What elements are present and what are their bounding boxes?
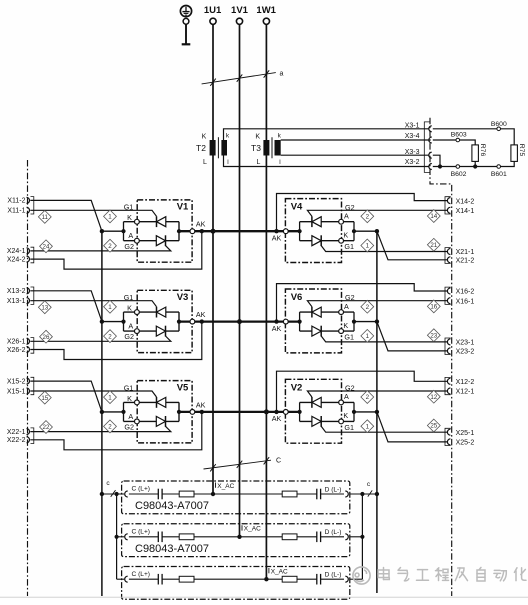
svg-text:V1: V1	[177, 202, 189, 213]
connector X23 bracket	[445, 338, 451, 355]
cable number 2 (V3 G2)	[104, 330, 117, 343]
test point B603	[451, 131, 467, 141]
svg-text:2: 2	[108, 333, 112, 340]
svg-text:A: A	[344, 302, 349, 311]
svg-text:a: a	[280, 71, 284, 78]
svg-text:X3-3: X3-3	[405, 149, 420, 156]
connector X21 bracket	[445, 248, 451, 264]
svg-text:AK: AK	[272, 234, 282, 243]
svg-text:B603: B603	[451, 131, 467, 138]
terminal X14-1	[447, 207, 474, 215]
svg-text:24: 24	[43, 244, 50, 251]
cable number 22	[40, 421, 53, 434]
svg-text:1V1: 1V1	[231, 5, 249, 16]
svg-text:C (L+): C (L+)	[132, 528, 151, 535]
junction phase row 3	[264, 409, 269, 414]
svg-text:A: A	[128, 412, 133, 421]
wire DC bus to strip1 C	[102, 493, 124, 495]
wire X11-2 to cathode node	[30, 200, 102, 231]
svg-text:16: 16	[430, 304, 437, 311]
wire AK phase row V1/V4	[179, 230, 300, 232]
wire AK phase row V3/V6	[179, 320, 300, 322]
node X_AC strip 2	[237, 525, 261, 539]
junction DC bus left row 1	[100, 229, 104, 233]
svg-text:V3: V3	[177, 292, 189, 303]
svg-text:D (L-): D (L-)	[325, 572, 342, 579]
svg-text:G1: G1	[124, 203, 134, 212]
svg-text:A: A	[128, 231, 133, 240]
terminal X15-2	[7, 378, 30, 385]
svg-text:X13-1: X13-1	[7, 298, 26, 305]
svg-text:K: K	[343, 411, 348, 420]
svg-text:C: C	[276, 458, 281, 465]
cable number 13	[38, 301, 51, 314]
svg-text:A: A	[344, 392, 349, 401]
svg-text:2: 2	[108, 424, 112, 431]
svg-text:AK: AK	[196, 220, 206, 229]
svg-text:V2: V2	[291, 382, 303, 393]
svg-text:L: L	[203, 159, 207, 166]
watermark text	[378, 567, 526, 581]
terminal X21-2	[447, 257, 474, 265]
current transformer T2	[196, 132, 230, 166]
strip interconnect vertical left	[116, 494, 118, 579]
svg-text:K: K	[127, 394, 132, 403]
junction DC bus right row 1	[375, 229, 379, 233]
thyristor module V3	[121, 290, 205, 352]
junction riser X16-2	[274, 319, 278, 323]
svg-text:X_AC: X_AC	[217, 483, 234, 490]
svg-text:X22-1: X22-1	[7, 429, 26, 436]
wire strip1 D to DC bus	[350, 493, 377, 495]
svg-text:G1: G1	[124, 293, 134, 302]
svg-text:1U1: 1U1	[204, 5, 222, 16]
cable marker c right	[367, 481, 372, 496]
enclosure boundary left	[27, 160, 29, 596]
svg-text:G1: G1	[344, 423, 354, 432]
svg-text:2: 2	[366, 214, 370, 221]
svg-text:B602: B602	[451, 171, 467, 178]
cable number 14	[427, 210, 440, 223]
svg-text:V5: V5	[177, 382, 189, 393]
junction riser X24-2	[200, 229, 204, 233]
wire T2 k to X3-1	[224, 129, 429, 140]
svg-text:X23-1: X23-1	[456, 340, 475, 347]
wire strip2 D	[350, 536, 362, 538]
resistor R75	[511, 144, 525, 162]
svg-text:X13-2: X13-2	[7, 288, 26, 295]
test point B600	[491, 121, 507, 131]
wire V4 right lead to DC bus	[354, 230, 377, 232]
svg-text:2: 2	[108, 243, 112, 250]
svg-text:X3-4: X3-4	[405, 133, 420, 140]
wire V5 left lead to DC bus	[102, 411, 124, 413]
svg-text:13: 13	[41, 305, 48, 312]
thyristor module V4	[272, 199, 356, 263]
thyristor module V1	[121, 200, 205, 262]
current transformer T3	[251, 132, 282, 166]
enclosure boundary right	[430, 118, 452, 596]
wire V3 left lead to DC bus	[102, 321, 124, 323]
phase terminal 1V1	[231, 5, 249, 24]
wire X3-3 drop to bottom net	[433, 155, 440, 166]
svg-text:G1: G1	[124, 383, 134, 392]
svg-text:K: K	[202, 133, 207, 140]
cable number 1 (V3 G1)	[104, 300, 117, 313]
svg-text:X12-2: X12-2	[456, 379, 475, 386]
junction strip1 right2	[360, 492, 364, 496]
phase terminal 1U1	[204, 5, 222, 24]
svg-text:R75: R75	[518, 144, 525, 157]
wire V2 right lead to DC bus	[354, 411, 377, 413]
cable marker a	[202, 70, 284, 86]
cable number 1 (V6 G1)	[361, 330, 374, 343]
svg-text:T3: T3	[251, 143, 261, 153]
svg-text:R76: R76	[479, 144, 486, 157]
junction DC bus right row 3	[375, 410, 379, 414]
cable number 2 (V2 G2)	[361, 391, 374, 404]
wire T3 k to X3-4	[281, 139, 429, 141]
cable number 1 (V5 G1)	[104, 391, 117, 404]
wire T2 l to X3-2	[224, 156, 429, 167]
svg-text:V4: V4	[291, 202, 303, 213]
svg-text:K: K	[255, 133, 260, 140]
svg-text:X11-1: X11-1	[7, 208, 25, 215]
wire gate G1 V2 to X25-1	[321, 426, 447, 432]
connector X3 bracket	[424, 122, 430, 172]
terminal X23-2	[447, 348, 474, 356]
wire X3-2 bottom net to R75/R76	[433, 161, 514, 166]
junction strip2 left2	[115, 535, 119, 539]
terminal X12-2	[447, 378, 474, 386]
svg-text:X14-1: X14-1	[456, 208, 475, 215]
wire V1 left lead to DC bus	[102, 230, 124, 232]
terminal X11-2	[7, 197, 29, 204]
wire X3-1 to R75 (B600 net)	[433, 129, 514, 145]
wire X12-2 feeder from phase node	[277, 371, 448, 412]
ground terminal PE	[180, 6, 191, 45]
terminal X22-1	[7, 429, 30, 436]
svg-text:X16-2: X16-2	[456, 289, 475, 296]
svg-text:X_AC: X_AC	[244, 526, 261, 533]
terminal X3-4	[405, 133, 432, 143]
svg-text:X26-1: X26-1	[7, 339, 26, 346]
svg-text:1: 1	[108, 394, 112, 401]
cable number 23	[427, 329, 440, 342]
terminal X13-2	[7, 288, 30, 295]
svg-text:11: 11	[42, 214, 49, 221]
svg-text:X26-2: X26-2	[7, 347, 26, 354]
phase terminal 1W1	[256, 5, 276, 24]
wire phase 1U1 vertical	[212, 24, 214, 494]
svg-text:26: 26	[43, 334, 50, 341]
wire AK phase row V5/V2	[179, 411, 300, 413]
terminal X3-1	[405, 122, 432, 132]
terminal X16-2	[447, 288, 474, 296]
junction DC bus left row 2	[100, 319, 104, 323]
cable number 2 (V1 G2)	[104, 239, 117, 252]
svg-text:X23-2: X23-2	[456, 349, 475, 356]
wire X13-1 to gate G1 V3	[30, 301, 156, 307]
svg-text:23: 23	[430, 332, 437, 339]
node X_AC strip 1	[211, 483, 235, 497]
svg-text:C (L+): C (L+)	[132, 571, 151, 578]
terminal X23-1	[447, 339, 474, 347]
svg-text:B601: B601	[491, 171, 507, 178]
junction strip2 right2	[360, 535, 364, 539]
wire X15-1 to gate G1 V5	[30, 391, 156, 397]
svg-text:G2: G2	[124, 242, 134, 251]
svg-text:AK: AK	[272, 324, 282, 333]
svg-text:K: K	[343, 321, 348, 330]
terminal X14-2	[447, 198, 474, 206]
svg-text:G2: G2	[124, 423, 134, 432]
connector X11 bracket	[31, 197, 34, 214]
node X_AC strip 3	[264, 568, 288, 581]
strip interconnect vertical right	[361, 494, 363, 579]
svg-text:A: A	[344, 212, 349, 221]
junction DC bus left row 3	[100, 410, 104, 414]
cable number 21	[427, 238, 440, 251]
svg-text:X25-2: X25-2	[456, 440, 475, 447]
junction R76 bottom	[473, 164, 477, 168]
wire T3 l to X3-3	[281, 154, 429, 156]
cable number 24	[40, 240, 53, 253]
svg-text:1: 1	[108, 304, 112, 311]
svg-text:1: 1	[108, 214, 112, 221]
svg-text:X3-2: X3-2	[405, 159, 420, 166]
terminal X24-1	[7, 248, 30, 255]
svg-text:1: 1	[366, 243, 370, 250]
wire strip3 D	[350, 578, 362, 580]
svg-text:X16-1: X16-1	[456, 298, 475, 305]
svg-text:C98043-A7007: C98043-A7007	[135, 500, 209, 512]
wire gate G1 V6 to X23-1	[321, 336, 447, 342]
wire X3-4 to R76 (B603 net)	[433, 140, 475, 145]
connector X24 bracket	[31, 247, 34, 263]
wire X16-2 feeder from phase node	[277, 284, 448, 322]
svg-text:D (L-): D (L-)	[325, 486, 342, 493]
junction phase row 2	[237, 319, 242, 324]
terminal X21-1	[447, 249, 474, 257]
svg-text:X15-2: X15-2	[7, 378, 26, 385]
thyristor module V6	[272, 289, 356, 353]
terminal X13-1	[7, 298, 30, 305]
cable number 2 (V6 G2)	[361, 300, 374, 313]
terminal X25-1	[447, 429, 474, 437]
wire strip2 C	[117, 536, 125, 538]
svg-text:2: 2	[366, 394, 370, 401]
svg-text:X11-2: X11-2	[7, 198, 25, 205]
svg-text:X21-2: X21-2	[456, 258, 475, 265]
DC bus left (C)	[101, 231, 103, 596]
wire X26-1 to gate G2 V3	[30, 336, 171, 341]
snubber module C98043-A7007 #3	[122, 567, 350, 600]
wire gate G2 V4 to X14-1	[307, 210, 447, 216]
svg-text:X22-2: X22-2	[7, 437, 26, 444]
wire X23-2 to DC node	[377, 322, 447, 351]
cable number 1 (V2 G1)	[361, 420, 374, 433]
connector X16 bracket	[445, 287, 451, 304]
svg-text:22: 22	[43, 424, 50, 431]
cable number 15	[38, 391, 51, 404]
svg-text:AK: AK	[196, 400, 206, 409]
svg-text:2: 2	[366, 304, 370, 311]
terminal X16-1	[447, 298, 474, 306]
svg-text:1: 1	[366, 333, 370, 340]
wire V6 right lead to DC bus	[354, 321, 377, 323]
cable number 25	[427, 419, 440, 432]
svg-text:X25-1: X25-1	[456, 430, 475, 437]
svg-text:L: L	[256, 159, 260, 166]
wire X14-2 feeder from phase node	[277, 194, 448, 232]
bottom frame line	[0, 596, 528, 598]
wire strip3 C	[117, 578, 125, 580]
svg-text:G1: G1	[344, 333, 354, 342]
wire X25-2 to DC node	[377, 412, 447, 442]
wire X21-2 to DC node	[377, 231, 447, 260]
test point B602	[451, 165, 467, 178]
DC bus right (D)	[376, 231, 378, 593]
terminal X11-1	[7, 207, 29, 214]
connector X12 bracket	[445, 377, 451, 394]
svg-text:X3-1: X3-1	[405, 122, 420, 129]
cable number 11	[38, 211, 51, 224]
svg-text:1W1: 1W1	[256, 5, 276, 16]
cable number 2 (V5 G2)	[104, 420, 117, 433]
junction DC bus right row 2	[375, 319, 379, 323]
svg-text:T2: T2	[196, 143, 206, 153]
connector X14 bracket	[445, 197, 451, 214]
svg-text:C98043-A7007: C98043-A7007	[135, 543, 209, 555]
wire phase 1V1 vertical	[239, 24, 241, 536]
svg-text:A: A	[128, 322, 133, 331]
svg-text:AK: AK	[196, 310, 206, 319]
wire X22-1 to gate G2 V5	[30, 426, 171, 431]
junction strip1 left2	[115, 492, 119, 496]
thyristor module V2	[272, 379, 356, 443]
svg-text:K: K	[127, 304, 132, 313]
cable marker C	[204, 457, 282, 471]
junction riser X12-2	[274, 410, 278, 414]
snubber module C98043-A7007 #2	[122, 524, 350, 557]
svg-text:G2: G2	[124, 332, 134, 341]
watermark logo	[353, 567, 370, 584]
svg-text:V6: V6	[291, 292, 303, 303]
wire gate G2 V2 to X12-1	[307, 391, 447, 397]
snubber module C98043-A7007 #1	[122, 481, 350, 514]
terminal X24-2	[7, 256, 30, 263]
svg-text:K: K	[343, 230, 348, 239]
svg-text:X12-1: X12-1	[456, 389, 475, 396]
wire X22-2 to phase node	[30, 412, 202, 450]
connector X15 bracket	[31, 377, 34, 394]
terminal X26-1	[7, 338, 30, 345]
connector X26 bracket	[31, 338, 34, 354]
cable number 12	[427, 390, 440, 403]
terminal X26-2	[7, 347, 30, 354]
svg-text:X21-1: X21-1	[456, 249, 475, 256]
junction X3-3/X3-2	[438, 164, 442, 168]
svg-text:14: 14	[430, 213, 437, 220]
cable number 26	[40, 330, 53, 343]
svg-text:K: K	[127, 213, 132, 222]
terminal X3-2	[405, 159, 432, 170]
terminal X15-1	[7, 388, 30, 395]
junction riser X22-2	[200, 410, 204, 414]
wire X11-1 to gate G1 V1	[30, 210, 156, 216]
junction strip1 left	[100, 492, 104, 496]
junction strip1 right	[375, 492, 379, 496]
svg-text:25: 25	[430, 423, 437, 430]
terminal X3-3	[405, 149, 432, 158]
wire gate G2 V6 to X16-1	[307, 301, 447, 307]
cable number 1 (V4 G1)	[361, 239, 374, 252]
cable number 1 (V1 G1)	[104, 210, 117, 223]
junction riser X26-2	[200, 319, 204, 323]
connector X13 bracket	[31, 287, 34, 304]
svg-text:AK: AK	[272, 414, 282, 423]
wire X24-2 to phase node	[30, 231, 202, 269]
svg-text:C (L+): C (L+)	[132, 486, 151, 493]
wire gate G1 V4 to X21-1	[321, 246, 447, 252]
wire X24-1 to gate G2 V1	[30, 246, 171, 251]
wire X26-2 to phase node	[30, 322, 202, 360]
terminal X22-2	[7, 437, 30, 444]
thyristor module V5	[121, 381, 205, 443]
connector X25 bracket	[445, 428, 451, 445]
svg-text:12: 12	[430, 394, 437, 401]
junction phase row 1	[211, 229, 216, 234]
svg-text:G1: G1	[344, 242, 354, 251]
svg-text:D (L-): D (L-)	[325, 529, 342, 536]
cable number 16	[427, 300, 440, 313]
resistor R76	[472, 144, 486, 162]
junction riser X14-2	[274, 229, 278, 233]
svg-text:1: 1	[366, 423, 370, 430]
test point B601	[491, 165, 507, 178]
wire X15-2 to cathode node	[30, 381, 102, 412]
wire X13-2 to cathode node	[30, 291, 102, 322]
svg-text:X24-2: X24-2	[7, 256, 26, 263]
terminal X25-2	[447, 439, 474, 447]
cable number 2 (V4 G2)	[361, 210, 374, 223]
cable marker c left	[106, 480, 115, 497]
svg-text:X15-1: X15-1	[7, 388, 26, 395]
svg-text:21: 21	[430, 242, 437, 249]
svg-text:X14-2: X14-2	[456, 198, 475, 205]
connector X22 bracket	[31, 428, 34, 444]
terminal X12-1	[447, 388, 474, 396]
svg-text:15: 15	[41, 395, 48, 402]
svg-text:X24-1: X24-1	[7, 248, 26, 255]
svg-text:X_AC: X_AC	[271, 568, 288, 575]
wire phase 1W1 vertical	[265, 24, 267, 579]
